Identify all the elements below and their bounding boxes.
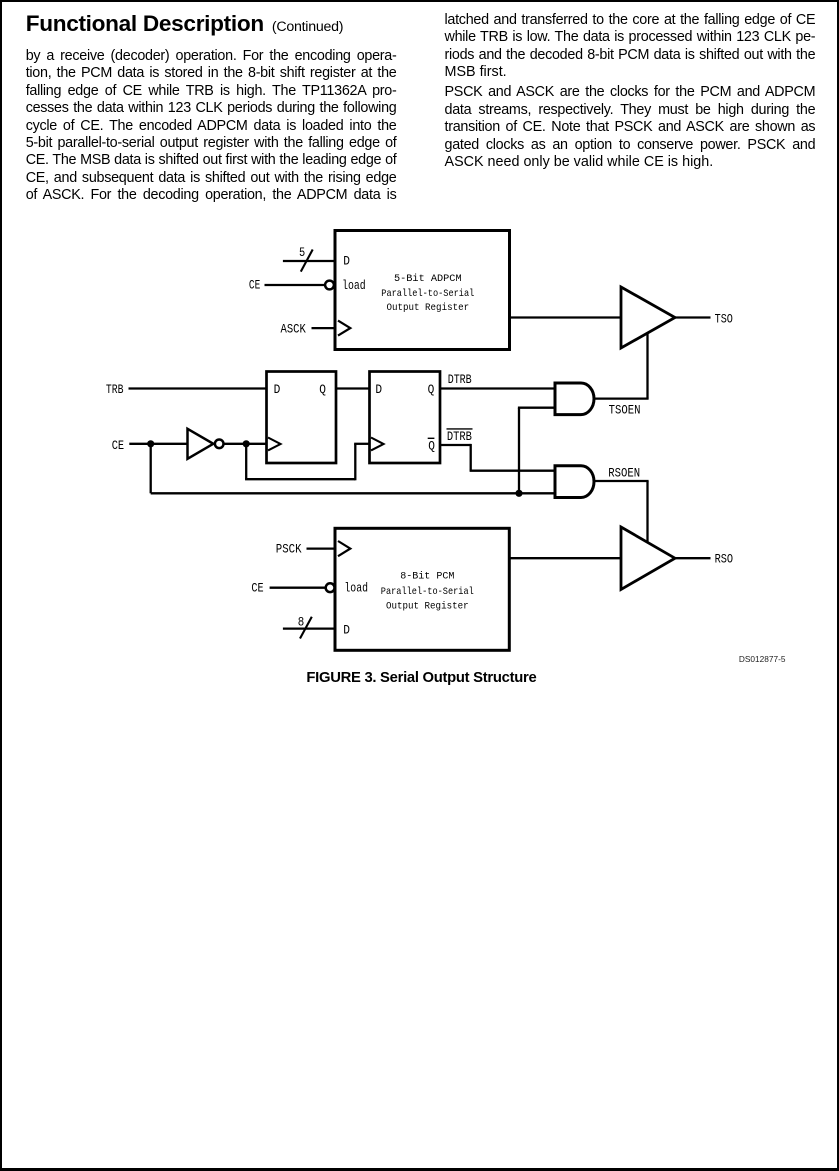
wire U3 out to RSO buffer: [509, 557, 621, 559]
inversion bubble U1 load: [325, 281, 334, 290]
svg-text:Q: Q: [319, 383, 326, 397]
wire invCE down: [245, 444, 247, 479]
wire FF2 Qbar horizontal: [440, 444, 471, 446]
AND gate RSOEN: [555, 466, 594, 498]
wire inverter out to FF1 clock: [224, 443, 268, 445]
register U3 8-Bit PCM Parallel-to-Serial Output Register: [335, 528, 509, 650]
bus width slash U3: [300, 617, 312, 639]
svg-text:Parallel-to-Serial: Parallel-to-Serial: [381, 586, 474, 598]
datasheet figure number: [739, 654, 786, 664]
svg-text:D: D: [343, 624, 350, 638]
svg-text:5-Bit ADPCM: 5-Bit ADPCM: [394, 273, 462, 285]
wire CE down to rail: [150, 444, 152, 494]
svg-text:Q: Q: [428, 440, 435, 454]
wire TSOEN gate output: [594, 397, 649, 399]
svg-text:PSCK: PSCK: [276, 543, 302, 557]
tri-state buffer TSO: [621, 287, 675, 348]
wire RSOEN gate output: [594, 480, 649, 482]
wire FF1 Q to FF2 D: [336, 387, 371, 389]
wire invCE up: [354, 444, 356, 481]
svg-text:TSO: TSO: [715, 313, 733, 327]
svg-text:TRB: TRB: [106, 383, 124, 397]
register U1 5-Bit ADPCM Parallel-to-Serial Output Register: [335, 231, 510, 350]
svg-text:Parallel-to-Serial: Parallel-to-Serial: [381, 288, 474, 300]
svg-text:CE: CE: [249, 278, 260, 292]
page border left: [0, 0, 2, 1171]
wire DTRB FF2 Q to TSOEN: [440, 387, 556, 389]
wire U1 out to TSO buffer: [510, 316, 622, 318]
svg-text:D: D: [343, 254, 350, 268]
inversion bubble U3 load: [326, 583, 335, 592]
bus width slash U1: [301, 250, 313, 272]
wire CE to inverter: [129, 443, 187, 445]
svg-text:RSOEN: RSOEN: [608, 467, 640, 481]
figure caption: [306, 670, 536, 686]
wire RSO output: [675, 557, 711, 559]
wire FF2 Qbar vertical: [470, 444, 472, 471]
svg-text:D: D: [375, 383, 382, 397]
wire TSOEN to TSO enable vertical: [646, 334, 648, 399]
svg-text:8-Bit PCM: 8-Bit PCM: [400, 571, 454, 583]
wire PSCK to U3 clock: [307, 547, 337, 549]
svg-text:DTRB: DTRB: [448, 373, 472, 387]
wire CE rail to RSOEN: [151, 492, 555, 494]
junction dot CE rail: [515, 490, 522, 497]
page border bottom: [0, 1168, 839, 1171]
wire bus D to U1: [283, 260, 336, 262]
wire TSO output: [675, 316, 711, 318]
wire invCE under FF1: [245, 478, 355, 480]
AND gate TSOEN: [555, 383, 594, 415]
junction dot inverted CE: [243, 440, 250, 447]
wire bus D to U3: [283, 627, 336, 629]
svg-text:TSOEN: TSOEN: [609, 404, 641, 418]
wire CE to TSOEN input: [518, 407, 555, 409]
page border top: [0, 0, 839, 2]
flip-flop FF2: [370, 372, 441, 464]
svg-text:5: 5: [299, 246, 305, 260]
svg-text:load: load: [342, 279, 366, 293]
svg-text:Q: Q: [428, 383, 435, 397]
wire TRB to FF1 D: [129, 387, 268, 389]
wire CE to U3 load: [270, 587, 326, 589]
clock triangle U3: [338, 541, 350, 556]
left column text: [26, 48, 397, 205]
svg-text:D: D: [274, 383, 281, 397]
heading: [26, 11, 344, 40]
wire CE rail up to TSOEN: [518, 408, 520, 495]
wire RSOEN to RSO enable vertical: [646, 481, 648, 543]
page border right: [837, 0, 839, 1171]
wire CE to U1 load: [265, 284, 325, 286]
clock triangle U1: [338, 321, 350, 336]
svg-text:Output Register: Output Register: [387, 302, 470, 314]
inverter U2: [188, 429, 224, 459]
tri-state buffer RSO: [621, 527, 675, 590]
svg-text:8: 8: [298, 615, 305, 629]
svg-text:Output Register: Output Register: [386, 601, 469, 613]
right column text: [445, 12, 816, 172]
svg-text:load: load: [344, 582, 368, 596]
node DTRBbar label: [447, 429, 473, 444]
wire invCE to FF2 clock: [354, 443, 370, 445]
svg-text:CE: CE: [112, 439, 124, 453]
flip-flop FF1: [267, 372, 337, 464]
wire ASCK to U1 clock: [312, 327, 337, 329]
svg-text:RSO: RSO: [715, 553, 734, 567]
svg-text:CE: CE: [251, 582, 263, 596]
svg-text:DTRB: DTRB: [447, 430, 472, 444]
pin Qbar of FF2: [428, 438, 435, 453]
wire DTRBbar to RSOEN: [470, 470, 555, 472]
junction dot CE branch: [147, 440, 154, 447]
svg-text:ASCK: ASCK: [281, 323, 307, 337]
